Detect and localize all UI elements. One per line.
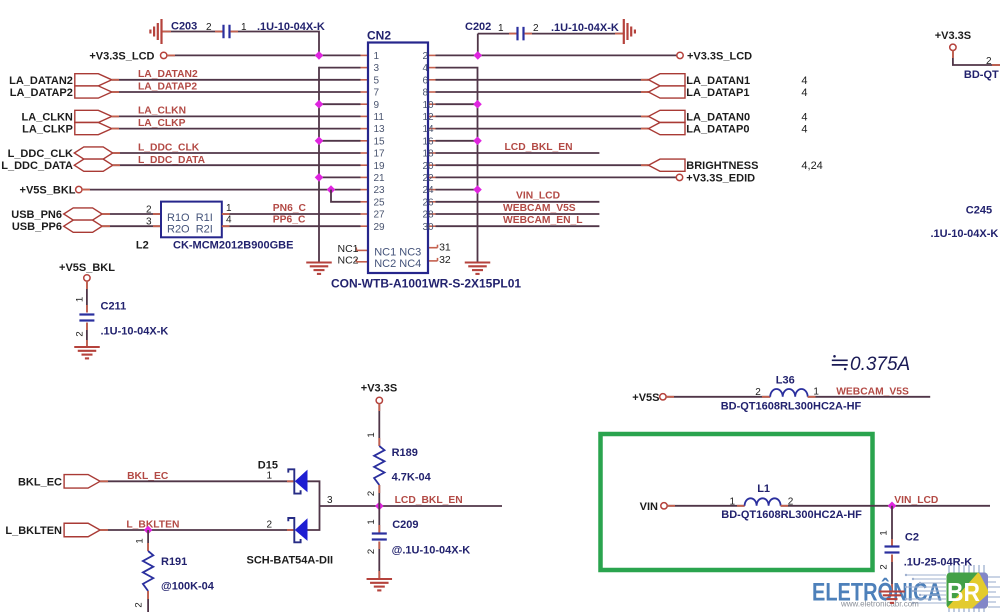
svg-text:4,24: 4,24 xyxy=(801,160,822,172)
svg-text:+V5S_BKL: +V5S_BKL xyxy=(59,262,115,274)
pin 31 stub xyxy=(428,245,438,248)
svg-text:+V3.3S_LCD: +V3.3S_LCD xyxy=(89,51,154,63)
junction VIN_LCD xyxy=(888,502,897,511)
NC2 left stub xyxy=(356,259,368,262)
pin 1 of R191 xyxy=(135,538,146,543)
svg-text:.1U-10-04X-K: .1U-10-04X-K xyxy=(101,326,169,338)
label L2 xyxy=(136,240,149,252)
svg-text:27: 27 xyxy=(374,210,386,221)
svg-text:BR: BR xyxy=(947,577,980,607)
svg-text:2: 2 xyxy=(206,22,212,33)
svg-text:2: 2 xyxy=(423,51,429,62)
sheet ref 4 for LA_DATAP0 xyxy=(801,124,807,136)
capacitor C203 xyxy=(224,25,230,39)
net label WEBCAM_V5S bottom xyxy=(836,386,909,397)
svg-text:L_DDC_DATA: L_DDC_DATA xyxy=(138,155,206,166)
wire L_DDC_CLK xyxy=(113,152,361,154)
pin 2 of D15 xyxy=(266,520,272,531)
svg-text:@.1U-10-04X-K: @.1U-10-04X-K xyxy=(392,545,471,557)
svg-text:BD-QT1608RL300HC2A-HF: BD-QT1608RL300HC2A-HF xyxy=(721,509,862,521)
CN2 right pin numbers xyxy=(423,51,435,233)
wire R189 to node xyxy=(378,485,380,506)
svg-text:CK-MCM2012B900GBE: CK-MCM2012B900GBE xyxy=(173,240,293,252)
svg-text:4: 4 xyxy=(423,63,429,74)
wire D15 pin3 to LCD_BKL_EN node xyxy=(320,505,503,507)
wire USB_PN6 to L2 xyxy=(102,213,161,215)
svg-text:WEBCAM_V5S: WEBCAM_V5S xyxy=(836,386,909,397)
label C203 xyxy=(171,21,197,33)
ground for C209 xyxy=(367,579,393,590)
pin number 32 xyxy=(439,254,451,266)
wire pin 12 to port LA_DATAN0 xyxy=(436,115,649,117)
svg-text:3: 3 xyxy=(374,63,380,74)
svg-text:LA_CLKN: LA_CLKN xyxy=(138,106,186,117)
net label L_BKLTEN xyxy=(126,520,179,531)
port LA_DATAP2 xyxy=(75,86,112,98)
svg-text:3: 3 xyxy=(327,495,333,506)
ground (rotated) for C202 xyxy=(624,19,635,44)
svg-text:1: 1 xyxy=(366,519,377,524)
junction LCD_BKL_EN node xyxy=(375,502,384,511)
svg-text:1: 1 xyxy=(813,386,819,397)
svg-text:NC2 NC4: NC2 NC4 xyxy=(374,258,421,270)
svg-text:LA_DATAN0: LA_DATAN0 xyxy=(686,111,750,123)
svg-text:+V3.3S_LCD: +V3.3S_LCD xyxy=(687,51,752,63)
power +V3.3S_LCD left circle xyxy=(161,52,167,58)
svg-text:VIN_LCD: VIN_LCD xyxy=(894,495,938,506)
svg-text:R189: R189 xyxy=(392,447,418,459)
svg-text:7: 7 xyxy=(374,88,380,99)
svg-text:8: 8 xyxy=(423,88,429,99)
svg-text:C203: C203 xyxy=(171,21,197,33)
label C211 xyxy=(101,301,127,313)
svg-text:L_BKLTEN: L_BKLTEN xyxy=(5,525,62,537)
capacitor C209 xyxy=(372,534,387,540)
svg-text:L36: L36 xyxy=(776,375,795,387)
svg-text:.1U-25-04R-K: .1U-25-04R-K xyxy=(904,557,973,569)
svg-text:24: 24 xyxy=(423,185,435,196)
svg-text:L_DDC_CLK: L_DDC_CLK xyxy=(8,148,73,160)
svg-text:1: 1 xyxy=(879,530,890,535)
svg-text:R1O R1I: R1O R1I xyxy=(167,212,213,224)
label port USB_PP6 xyxy=(12,221,62,233)
svg-text:L2: L2 xyxy=(136,240,149,252)
logo chip graphic xyxy=(905,565,1000,612)
label R189 xyxy=(392,447,418,459)
pin 1 of C203 xyxy=(241,22,247,33)
capacitor C2 xyxy=(885,547,900,553)
net label LA_CLKP xyxy=(138,118,186,129)
svg-text:2: 2 xyxy=(986,56,992,67)
value of C202 xyxy=(551,22,619,34)
net label LA_CLKN xyxy=(138,106,186,117)
wire C203 to +V3.3S_LCD net xyxy=(231,32,320,56)
port LA_DATAN1 xyxy=(649,74,686,86)
net label BKL_EC xyxy=(127,471,169,482)
pin 1 of C2 xyxy=(879,530,890,535)
pin 2 of C209 xyxy=(366,549,377,554)
wire pin 8 to port LA_DATAP1 xyxy=(436,91,649,93)
svg-text:www.eletronicabr.com: www.eletronicabr.com xyxy=(840,600,919,609)
pin 2 of L1 xyxy=(788,496,794,507)
label port L_DDC_CLK xyxy=(8,148,73,160)
svg-text:+V3.3S_EDID: +V3.3S_EDID xyxy=(686,172,755,184)
svg-text:USB_PP6: USB_PP6 xyxy=(12,221,62,233)
svg-text:.1U-10-04X-K: .1U-10-04X-K xyxy=(551,22,619,34)
label port LA_DATAN2 xyxy=(9,75,73,87)
svg-text:2: 2 xyxy=(146,204,152,215)
connector CN2 right pin stubs xyxy=(428,55,436,226)
svg-text:+V3.3S: +V3.3S xyxy=(361,383,397,395)
svg-text:4: 4 xyxy=(801,87,807,99)
wire BKL_EC to D15 xyxy=(100,480,294,482)
NC1 left stub xyxy=(356,247,368,250)
wire pin 21 stub xyxy=(319,176,361,178)
pin 1 of C202 xyxy=(498,23,504,34)
ground for C211 xyxy=(74,347,100,358)
svg-text:1: 1 xyxy=(366,432,377,437)
svg-text:C202: C202 xyxy=(465,21,491,33)
svg-text:CN2: CN2 xyxy=(367,29,391,43)
sheet ref 4 for LA_DATAP1 xyxy=(801,87,807,99)
svg-text:1: 1 xyxy=(730,496,736,507)
svg-text:5: 5 xyxy=(374,75,380,86)
label port LA_DATAN1 xyxy=(686,75,750,87)
svg-text:28: 28 xyxy=(423,210,435,221)
svg-text:C2: C2 xyxy=(905,532,919,544)
net label L_DDC_DATA xyxy=(138,155,206,166)
power +V5S label xyxy=(632,392,659,404)
svg-text:LA_DATAN1: LA_DATAN1 xyxy=(686,75,750,87)
svg-text:21: 21 xyxy=(374,173,386,184)
wire L_BKLTEN to D15 xyxy=(100,529,294,531)
svg-text:NC1: NC1 xyxy=(337,243,358,255)
svg-text:1: 1 xyxy=(135,538,146,543)
label NC1 outside xyxy=(337,243,358,255)
label NC2 outside xyxy=(337,255,358,267)
power +V3.3S circle (R189) xyxy=(376,397,382,403)
wire LA_DATAN2 xyxy=(112,79,361,81)
svg-text:SCH-BAT54A-DII: SCH-BAT54A-DII xyxy=(247,555,334,567)
svg-text:C211: C211 xyxy=(101,301,127,313)
svg-text:@100K-04: @100K-04 xyxy=(161,581,215,593)
pin 4 of L2 xyxy=(226,215,232,226)
svg-text:+V5S: +V5S xyxy=(632,392,659,404)
net label LCD_BKL_EN bottom xyxy=(395,495,463,506)
wire left ground bus xyxy=(318,68,321,263)
svg-text:19: 19 xyxy=(374,161,386,172)
svg-text:L_BKLTEN: L_BKLTEN xyxy=(126,520,179,531)
svg-text:LA_DATAP1: LA_DATAP1 xyxy=(686,87,749,99)
wire R191 to bottom edge xyxy=(147,591,149,612)
svg-text:+V3.3S: +V3.3S xyxy=(935,30,971,42)
wire +V5S_BKL to pin 23 xyxy=(82,189,361,191)
svg-text:4: 4 xyxy=(801,111,807,123)
pin 2 of L36 xyxy=(755,387,761,398)
connector CN2 part number xyxy=(331,277,521,291)
power +V3.3S_LCD left label xyxy=(89,51,154,63)
wire pin 26 VIN_LCD xyxy=(436,201,600,203)
power +V3.3S label (R189) xyxy=(361,383,397,395)
power +V3.3S top label xyxy=(935,30,971,42)
wire pin 14 to port LA_DATAP0 xyxy=(436,128,649,130)
svg-text:L_DDC_DATA: L_DDC_DATA xyxy=(1,160,73,172)
svg-text:3: 3 xyxy=(146,217,152,228)
svg-text:13: 13 xyxy=(374,124,386,135)
logo url xyxy=(840,600,919,609)
inductor L36 xyxy=(770,389,808,397)
svg-text:BD-QT1608RL300HC2A-HF: BD-QT1608RL300HC2A-HF xyxy=(721,400,862,412)
svg-text:VIN: VIN xyxy=(640,501,658,513)
svg-text:30: 30 xyxy=(423,222,435,233)
power +V3.3S_EDID circle xyxy=(676,174,682,180)
sheet ref 4 for LA_DATAN1 xyxy=(801,75,807,87)
label port LA_DATAP2 xyxy=(10,87,73,99)
svg-text:10: 10 xyxy=(423,100,435,111)
port LA_DATAP1 xyxy=(649,86,686,98)
label port L_BKLTEN xyxy=(5,525,62,537)
svg-text:LA_DATAN2: LA_DATAN2 xyxy=(9,75,73,87)
wire LA_DATAP2 xyxy=(112,91,361,93)
svg-text:18: 18 xyxy=(423,149,435,160)
diode D15 upper schottky xyxy=(288,469,307,493)
svg-text:LCD_BKL_EN: LCD_BKL_EN xyxy=(505,142,573,153)
label port LA_DATAN0 xyxy=(686,111,750,123)
port USB_PP6 xyxy=(64,220,102,232)
svg-text:15: 15 xyxy=(374,136,386,147)
svg-text:C245: C245 xyxy=(966,205,992,217)
pin 1 of L1 xyxy=(730,496,736,507)
power +V5S_BKL label xyxy=(20,184,76,196)
power +V3.3S_LCD right label xyxy=(687,51,752,63)
wire USB_PP6 to L2 xyxy=(102,225,161,227)
logo ELETRONICA text xyxy=(812,577,942,607)
value of L36 xyxy=(721,400,862,412)
junction bus pin16 xyxy=(473,137,482,146)
svg-text:2: 2 xyxy=(75,331,86,336)
svg-text:2: 2 xyxy=(134,602,145,607)
power +V5S_BKL circle xyxy=(76,186,82,192)
highlight box (green) xyxy=(601,434,873,570)
wire C209 to ground xyxy=(378,542,380,580)
wire D15 diode outputs common xyxy=(308,481,320,530)
pin 3 of D15 xyxy=(327,495,333,506)
net label WEBCAM_EN_L top xyxy=(503,215,583,226)
power +V5S_BKL standalone circle xyxy=(84,275,90,281)
wire +V5S_BKL to C211 xyxy=(86,281,88,312)
svg-text:L_DDC_CLK: L_DDC_CLK xyxy=(138,143,200,154)
label port LA_CLKN xyxy=(22,111,73,123)
wire +V3.3S_LCD to pin 1 xyxy=(167,54,361,56)
svg-text:R191: R191 xyxy=(161,556,187,568)
current annotation 0.375A xyxy=(832,354,910,375)
svg-text:BRIGHTNESS: BRIGHTNESS xyxy=(686,160,758,172)
svg-text:20: 20 xyxy=(423,161,435,172)
label L36 xyxy=(776,375,795,387)
value of C211 xyxy=(101,326,169,338)
pin 2 of C2 xyxy=(879,564,890,569)
port BRIGHTNESS xyxy=(649,159,686,171)
wire L_BKLTEN junction to R191 xyxy=(147,530,149,551)
label L1 xyxy=(757,483,770,495)
logo BR text xyxy=(947,577,980,607)
inductor L1 xyxy=(745,498,781,505)
wire node to C209 xyxy=(378,506,380,533)
svg-text:2: 2 xyxy=(879,564,890,569)
wire C202 vertical from +V3.3S_LCD xyxy=(477,34,479,56)
circle VIN xyxy=(661,503,667,509)
port LA_DATAP0 xyxy=(649,123,686,135)
svg-text:BKL_EC: BKL_EC xyxy=(18,477,62,489)
wire pin 30 WEBCAM_EN_L xyxy=(436,225,600,227)
connector CN2 refdes xyxy=(367,29,391,43)
capacitor C211 xyxy=(79,315,94,321)
wire +V3.3S to R189 xyxy=(378,404,380,446)
ground (rotated) for C203 xyxy=(150,19,161,44)
svg-text:LA_DATAN2: LA_DATAN2 xyxy=(138,69,198,80)
wire pin 18 LCD_BKL_EN xyxy=(436,152,600,154)
svg-text:LCD_BKL_EN: LCD_BKL_EN xyxy=(395,495,463,506)
svg-text:.1U-10-04X-K: .1U-10-04X-K xyxy=(931,228,999,240)
pin 2 of R189 xyxy=(366,491,377,496)
pin 1 of L36 xyxy=(813,386,819,397)
CN2 pin name NC1 NC3 xyxy=(374,247,421,259)
svg-text:11: 11 xyxy=(374,112,385,123)
label R191 xyxy=(161,556,187,568)
label port USB_PN6 xyxy=(11,209,62,221)
sheet ref 4 for LA_DATAN0 xyxy=(801,111,807,123)
svg-text:NC1 NC3: NC1 NC3 xyxy=(374,247,421,259)
pin 32 stub xyxy=(428,258,438,261)
CN2 pin name NC2 NC4 xyxy=(374,258,421,270)
svg-text:1: 1 xyxy=(498,23,504,34)
junction bus pin10 xyxy=(473,100,482,109)
ground for C2 (over logo) xyxy=(879,592,905,603)
wire LA_CLKP xyxy=(112,128,361,130)
L2 inner text R1O R1I xyxy=(167,212,213,224)
wire pin 2 to +V3.3S_LCD right xyxy=(436,54,677,56)
svg-text:R2O R2I: R2O R2I xyxy=(167,224,213,236)
pin number 31 xyxy=(439,242,451,254)
pin 1 of R189 xyxy=(366,432,377,437)
power +V5S circle xyxy=(660,394,666,400)
junction bus pin15 xyxy=(315,137,324,146)
value of C245 xyxy=(931,228,999,240)
resistor R191 xyxy=(143,551,153,591)
svg-text:LA_CLKN: LA_CLKN xyxy=(22,111,73,123)
label port BRIGHTNESS xyxy=(686,160,758,172)
svg-text:16: 16 xyxy=(423,136,435,147)
wire VIN_LCD to C2 xyxy=(891,506,893,547)
pin 2 of C211 xyxy=(75,331,86,336)
value of R189 xyxy=(392,472,432,484)
svg-text:22: 22 xyxy=(423,173,435,184)
svg-text:BD-QT: BD-QT xyxy=(964,69,999,81)
port LA_DATAN2 xyxy=(75,74,112,86)
value of R191 xyxy=(161,581,215,593)
pin 2 of BD-QT inductor xyxy=(986,56,992,67)
wire L36 to WEBCAM_V5S xyxy=(808,396,931,398)
wire pin 28 WEBCAM_V5S xyxy=(436,213,600,215)
label SCH-BAT54A-DII xyxy=(247,555,334,567)
svg-text:9: 9 xyxy=(374,100,380,111)
svg-text:23: 23 xyxy=(374,185,386,196)
svg-text:+V5S_BKL: +V5S_BKL xyxy=(20,184,76,196)
svg-text:4: 4 xyxy=(801,124,807,136)
wire pin 9 stub xyxy=(319,103,361,105)
sheet ref 4,24 xyxy=(801,160,822,172)
net label PN6_C xyxy=(273,203,307,214)
svg-text:LA_CLKP: LA_CLKP xyxy=(138,118,186,129)
svg-text:4: 4 xyxy=(226,215,232,226)
CN2 left pin numbers xyxy=(374,51,386,233)
power +V5S_BKL standalone label xyxy=(59,262,115,274)
junction at C202 / pin2 xyxy=(474,51,483,60)
power +V3.3S_EDID label xyxy=(686,172,755,184)
pin 2 of C203 xyxy=(206,22,212,33)
pin 1 of C209 xyxy=(366,519,377,524)
junction bus pin24 xyxy=(473,185,482,194)
svg-text:1: 1 xyxy=(374,51,380,62)
svg-text:4: 4 xyxy=(801,75,807,87)
wire pin 22 to +V3.3S_EDID xyxy=(436,176,677,178)
net label WEBCAM_V5S top xyxy=(503,203,576,214)
wire L_DDC_DATA xyxy=(113,164,361,166)
port L_BKLTEN xyxy=(64,523,100,537)
svg-text:C209: C209 xyxy=(392,519,418,531)
svg-text:14: 14 xyxy=(423,124,435,135)
wire C203 ground to cap xyxy=(163,31,224,33)
pin 3 of L2 xyxy=(146,217,152,228)
wire LA_CLKN xyxy=(112,115,361,117)
wire +V5S to L36 xyxy=(666,396,770,398)
port L_DDC_CLK xyxy=(74,147,112,159)
wire +V3.3S to BD-QT inductor xyxy=(953,51,1000,66)
wire L2 pin4 to pin 29 xyxy=(222,225,361,227)
svg-text:2: 2 xyxy=(366,491,377,496)
wire C202 left segment xyxy=(478,33,518,35)
svg-text:12: 12 xyxy=(423,112,435,123)
wire C202 to ground xyxy=(525,33,624,35)
port LA_CLKN xyxy=(75,110,112,122)
svg-text:25: 25 xyxy=(374,197,386,208)
ground left bus xyxy=(306,263,332,274)
wire right ground bus xyxy=(436,68,478,263)
label port LA_DATAP1 xyxy=(686,87,749,99)
svg-text:LA_DATAP2: LA_DATAP2 xyxy=(138,81,197,92)
svg-text:32: 32 xyxy=(439,254,451,266)
junction pin23/pin25 link xyxy=(327,185,336,194)
svg-text:LA_DATAP0: LA_DATAP0 xyxy=(686,124,749,136)
svg-text:.1U-10-04X-K: .1U-10-04X-K xyxy=(257,21,325,33)
svg-text:WEBCAM_V5S: WEBCAM_V5S xyxy=(503,203,576,214)
wire L1 to VIN_LCD junction xyxy=(781,505,990,507)
port BKL_EC xyxy=(64,475,100,489)
net label LCD_BKL_EN top xyxy=(505,142,573,153)
net label LA_DATAP2 xyxy=(138,81,197,92)
label port LA_CLKP xyxy=(22,124,73,136)
pin 1 of L2 xyxy=(226,203,232,214)
pin 2 of C202 xyxy=(533,23,539,34)
diode D15 lower schottky xyxy=(288,518,307,542)
net label L_DDC_CLK xyxy=(138,143,200,154)
wire pin 3 stub xyxy=(319,67,361,69)
wire link pin23 to pin25 xyxy=(331,190,361,202)
svg-text:VIN_LCD: VIN_LCD xyxy=(516,191,560,202)
label VIN xyxy=(640,501,658,513)
net label LA_DATAN2 xyxy=(138,69,198,80)
connector CN2 left pin stubs xyxy=(361,55,369,226)
